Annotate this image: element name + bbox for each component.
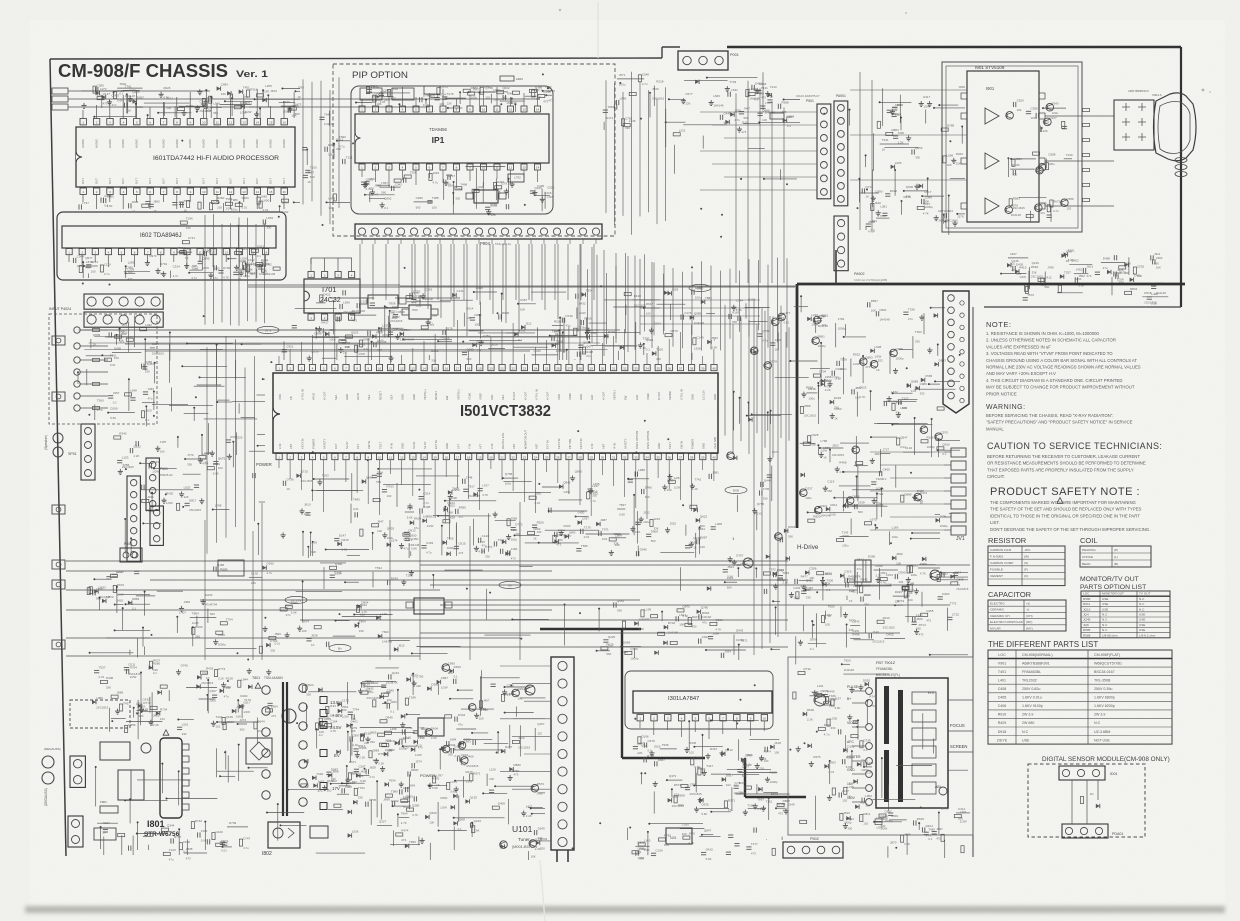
connector P502 — [783, 842, 843, 858]
connector PA902 — [834, 216, 848, 271]
wire I601 top pin — [270, 106, 272, 119]
component cluster below I301 — [785, 808, 787, 811]
wire IP1 pin bottom — [375, 170, 377, 182]
tuner connector U101 strip — [551, 657, 574, 850]
headphone jack symbol — [53, 433, 63, 443]
scan speck top — [559, 9, 561, 11]
tuner legs — [556, 850, 558, 862]
wire bus into thick line — [248, 286, 795, 288]
wire IP1 pin bottom — [442, 170, 444, 183]
wire long rail 1 — [66, 560, 788, 562]
wire horizontal bundle mid-left — [78, 329, 599, 331]
wire I601 bottom pin — [203, 195, 205, 210]
degauss coil P801 — [70, 756, 85, 787]
wire vertical bundle left of PIP — [302, 79, 304, 204]
fold crease light line — [597, 2, 599, 58]
warn triangle T801 — [255, 683, 261, 688]
RCA jack column — [74, 327, 80, 333]
connector JV1 multi-pin — [943, 291, 969, 413]
connector P4024 input row A — [84, 294, 163, 309]
wire horizontal feeders to I501 — [640, 299, 760, 301]
wire long rail 9 — [66, 637, 520, 639]
wire IP1 pin top — [456, 99, 458, 106]
error amp I803 — [310, 826, 328, 838]
wire I601 bottom pin — [283, 195, 285, 210]
transistor Q403 — [930, 570, 940, 580]
regulator I703 — [409, 305, 431, 319]
wire IP1 pin top — [429, 93, 431, 106]
flyback transformer T901 box — [876, 678, 948, 808]
output transistor cluster R — [1006, 112, 1014, 120]
wire audio bus 1 — [68, 98, 540, 100]
component cluster power below — [103, 829, 108, 831]
component cluster power primary — [150, 720, 152, 723]
IC I401 box — [666, 828, 692, 844]
vertical feeders mid — [204, 520, 206, 660]
wire cluster in AV box — [125, 393, 132, 396]
IC IP1 TDA9456 — [355, 114, 549, 163]
output transistor cluster B — [1005, 206, 1013, 214]
thick ground bus vertical — [796, 284, 799, 528]
opto coupler I802 — [268, 822, 300, 848]
wire long rail 4 — [66, 589, 440, 591]
wire lattice top audio — [259, 109, 261, 119]
I301 pin row — [637, 715, 643, 721]
wire vertical bundle P904 down — [359, 244, 361, 300]
wire I602 pin — [81, 255, 83, 267]
wire I601 top pin — [243, 94, 245, 119]
wire lattice below P001 — [669, 98, 685, 100]
wire cluster right of I501 — [808, 519, 815, 522]
component cluster above I501 — [474, 291, 497, 293]
wire IP1 pin bottom — [469, 170, 471, 181]
wire vertical bundle right of I501 descent — [724, 305, 726, 436]
posistor — [141, 743, 151, 753]
DIGITAL SENSOR MODULE dashed box — [1028, 764, 1145, 837]
I601 top pin row — [80, 119, 86, 125]
component cluster below I501 right — [667, 527, 669, 530]
wire cluster H-drive — [803, 585, 805, 588]
component cluster inside I602 block — [261, 265, 264, 272]
wire lattice far-left mid — [115, 629, 150, 631]
wire I602 pin — [107, 255, 109, 267]
component cluster right of T801 — [386, 704, 388, 709]
wire IP1 pin top — [483, 91, 485, 106]
FBT pins left — [866, 688, 873, 695]
I701 bottom pins — [308, 314, 314, 320]
wire cluster below P001 — [673, 133, 680, 136]
wire lattice PIP inner — [366, 92, 410, 94]
wire I601 top pin — [203, 109, 205, 119]
schematic border top-right thick — [661, 47, 663, 58]
wire IP1 pin top — [361, 99, 363, 106]
wire I601 bottom pin — [122, 195, 124, 210]
wire IP1 pin bottom — [429, 170, 431, 178]
wires I501 top pins up — [278, 356, 280, 364]
wire I602 pin — [225, 255, 227, 262]
I301 block outline — [625, 671, 773, 729]
wire cluster left-mid band — [372, 572, 374, 588]
speaker connector SP01 — [81, 424, 95, 480]
wire I601 bottom pin — [243, 195, 245, 203]
wire IP1 pin top — [469, 95, 471, 106]
wire lattice power extra — [238, 745, 240, 781]
PIP OPTION dashed box — [333, 64, 615, 236]
wire I601 top pin — [95, 105, 97, 119]
secondary rectifier cluster — [318, 688, 322, 692]
wire IP1 pin top — [510, 97, 512, 106]
wire I601 top pin — [216, 104, 218, 119]
I501 top pin row — [276, 365, 282, 371]
wire I601 bottom pin — [162, 195, 164, 203]
wire I602 pin — [134, 255, 136, 267]
bridge diode D801 — [246, 738, 272, 764]
wire I602 pin — [212, 255, 214, 267]
wire I602 pin — [265, 255, 267, 267]
FBT winding bar 3 — [898, 690, 903, 802]
CRT socket board — [1114, 100, 1154, 150]
IP1 bottom pin row — [359, 164, 365, 170]
wire vertical bundle left of P501 — [735, 93, 737, 283]
IC I301 LA7847 — [633, 691, 772, 713]
wire long rail 2 — [66, 570, 552, 572]
damper diode cluster — [846, 625, 848, 648]
wires upper-mid connectors — [248, 284, 400, 286]
FBT winding bar 2 — [884, 750, 889, 802]
IP1 top pin row — [359, 106, 365, 112]
wire I601 bottom pin — [176, 195, 178, 210]
sensor small parts — [1080, 797, 1083, 804]
wire I602 pin — [160, 255, 162, 267]
wire lattice below I501 — [628, 478, 649, 480]
wire long rail 5 — [200, 599, 640, 601]
P803 connector — [120, 548, 142, 562]
wire IP1 pin top — [442, 89, 444, 106]
wire vertical bundle below PIP — [579, 244, 581, 330]
wire lattice left connectors — [140, 489, 193, 491]
output transistor cluster G — [1011, 158, 1036, 160]
sensor connector PDA01 — [1062, 824, 1108, 838]
I901 pin squares — [961, 93, 967, 99]
schematic border top-left — [50, 58, 662, 59]
FBT winding bar 1 — [884, 686, 889, 744]
connector P605 — [150, 506, 163, 545]
IC I901 STV5109 — [967, 71, 1039, 222]
I602 pin row — [66, 249, 72, 255]
wire cluster left mid — [194, 484, 199, 486]
wire I602 pin — [199, 255, 201, 262]
wire long rail 7 — [300, 619, 788, 621]
schematic border left (slight scan skew) — [50, 59, 66, 856]
long verticals right of I501 — [753, 300, 755, 655]
wire I601 top pin — [256, 89, 258, 119]
wires tuner pins — [500, 665, 551, 667]
wire long rail 8 thick — [540, 628, 641, 630]
wire IP1 pin top — [415, 97, 417, 106]
wire IP1 pin bottom — [402, 170, 404, 180]
connector P806 bottom-left corner — [68, 816, 83, 847]
wire lattice top right amp — [957, 213, 965, 215]
audio input connector J601 — [52, 96, 68, 102]
transistor Q402 H-drive — [743, 558, 753, 568]
wire I601 bottom pin — [95, 195, 97, 210]
wire I602 pin — [238, 255, 240, 267]
sensor wires — [1071, 780, 1073, 824]
component cluster above I701 — [180, 251, 187, 254]
CAPACITOR table — [988, 600, 1066, 631]
wire lattice mid band — [196, 616, 198, 627]
wire IP1 pin bottom — [388, 170, 390, 187]
connector P001 on top border — [678, 51, 728, 70]
IC I602 TDA8946J body — [62, 226, 276, 248]
PIP inner rounded outline — [351, 86, 553, 214]
I701 top pins — [308, 272, 314, 278]
wire vertical bundle top center — [605, 80, 607, 213]
wire I601 bottom pin — [149, 195, 151, 210]
wire IP1 pin bottom — [483, 170, 485, 186]
AFT transistor — [525, 685, 535, 695]
wires inside top-right block — [850, 89, 967, 91]
wire lattice power supply — [147, 845, 149, 850]
component cluster tuner left — [461, 757, 469, 765]
component cluster left of PIP — [342, 159, 344, 164]
FBT ladder — [912, 692, 936, 704]
wire long rail 10 — [420, 646, 788, 648]
MONITOR/TV OUT table — [1081, 591, 1170, 638]
crystal X701 box — [508, 174, 524, 182]
wire I601 top pin — [176, 97, 178, 119]
wire I602 pin — [94, 255, 96, 262]
wire I601 top pin — [122, 95, 124, 119]
thick bus into vertical block — [621, 628, 623, 758]
mid horizontal bus — [400, 285, 797, 287]
component cluster between I601 and I602 — [222, 203, 224, 212]
wire I602 pin — [186, 255, 188, 267]
wire I601 top pin — [149, 107, 151, 119]
wire I601 bottom pin — [109, 195, 111, 203]
COIL table — [1080, 546, 1151, 567]
schematic border right of CRT block — [1180, 47, 1182, 307]
sub IC I702 in PIP — [474, 190, 498, 203]
connector P501 — [817, 104, 831, 199]
wire I601 top pin — [189, 92, 191, 119]
wires JV1 to left — [870, 451, 944, 453]
IC I801 STR-W6756 body — [160, 738, 182, 818]
wire IP1 pin top — [523, 93, 525, 106]
safety warn triangle in text — [1057, 498, 1063, 504]
component cluster right of tuner — [658, 632, 665, 635]
wire I601 bottom pin — [136, 195, 138, 203]
H drive transformer T402 — [855, 560, 871, 582]
small boxes above IP1 — [360, 88, 382, 100]
schematic border right lower — [972, 307, 974, 857]
I704 box above I501 — [368, 295, 398, 308]
wire IP1 pin bottom — [361, 170, 363, 177]
main filter cap C808 — [282, 709, 296, 723]
AV input dashed box — [49, 314, 157, 424]
wire IP1 pin top — [402, 87, 404, 106]
H-out block outline — [788, 657, 973, 835]
DIFFERENT PARTS LIST table — [988, 650, 1172, 744]
label 0.5V arrow — [770, 113, 784, 119]
connector P601 — [146, 458, 159, 510]
connector P904 — [355, 224, 602, 239]
component cluster above IP1 — [435, 97, 440, 99]
junction dots sprinkle — [600, 285, 602, 287]
wire IP1 pin top — [375, 95, 377, 106]
op-amp B channel — [985, 198, 999, 214]
component cluster below FBT — [875, 821, 882, 824]
wire I601 top pin — [109, 100, 111, 119]
P805 box — [218, 560, 244, 576]
wire I602 pin — [173, 255, 175, 262]
secondary output squares — [320, 697, 327, 704]
wire audio bus 2 — [68, 106, 430, 108]
wire lattice I301 area — [749, 739, 779, 741]
wire long rail 3 — [150, 579, 788, 581]
wires I301 pins — [639, 721, 641, 728]
CRT funnel — [1154, 93, 1197, 161]
ABL node — [939, 787, 947, 795]
wire cluster top-right corner block bottom — [1058, 285, 1061, 292]
IC I804 regulator — [418, 718, 444, 736]
wire long rail 6 — [66, 609, 552, 611]
wire bus into I501 top — [85, 329, 620, 331]
wires I501 bottom pins down — [278, 460, 280, 468]
I601 bottom pin row — [80, 188, 86, 194]
wire I601 top pin — [283, 101, 285, 119]
wire IP1 pin bottom — [496, 170, 498, 179]
wire IP1 pin bottom — [456, 170, 458, 188]
transformer T801 core — [282, 682, 284, 816]
wire vertical bundle center-right — [577, 265, 579, 332]
component cluster below I501 left — [478, 487, 483, 489]
wire bus P904 to main IC — [361, 239, 363, 244]
sensor connector ID01 — [1059, 766, 1105, 780]
fuse F801 — [100, 806, 118, 813]
thick bus top-right corner step — [835, 250, 837, 284]
wire lattice above I501 — [384, 306, 386, 337]
wire lattice right middle extra — [820, 343, 822, 383]
IF IC I201 — [414, 598, 444, 614]
connector PA901 — [834, 101, 848, 206]
wire I701 top — [310, 258, 312, 264]
wire IP1 pin bottom — [537, 170, 539, 182]
wires amp to CRT — [1045, 115, 1114, 117]
resistor cluster above I601 — [217, 86, 221, 90]
wire I602 pin — [120, 255, 122, 262]
wire lattice right-middle — [800, 296, 802, 312]
IC I602 TDA8946J block outline — [57, 212, 286, 280]
bottom page-edge shadow — [25, 906, 1225, 913]
JV1 lower pin boxes — [951, 448, 966, 457]
wire IP1 pin top — [496, 87, 498, 106]
wire IP1 pin top — [388, 91, 390, 106]
wire rails mid extra — [420, 564, 970, 566]
wire I602 pin — [251, 255, 253, 262]
CRT gun ellipses — [1175, 157, 1187, 162]
wire I602 pin — [147, 255, 149, 262]
op-amp R channel — [985, 108, 999, 124]
wire audio bus 3 — [68, 90, 210, 92]
T801 primary winding — [262, 686, 270, 694]
wire vertical bundle continue down — [206, 347, 208, 554]
wire IP1 pin bottom — [415, 170, 417, 185]
wire I601 bottom pin — [216, 195, 218, 203]
wire I601 bottom pin — [256, 195, 258, 210]
wire I601 top pin — [136, 90, 138, 119]
line filter T802 — [118, 770, 144, 800]
wire I601 bottom pin — [270, 195, 272, 203]
wire I601 bottom pin — [229, 195, 231, 210]
IC I501 VCT3832 — [273, 373, 718, 453]
I501 bottom pin row — [276, 454, 282, 460]
component cluster below IP1 — [511, 182, 513, 185]
resistor ladder right of amp — [1083, 108, 1090, 111]
IC I601 TDA7442 HI-FI audio processor — [76, 127, 295, 187]
RESISTOR table — [988, 546, 1065, 586]
wire long rail 11 — [66, 655, 420, 657]
resistor cluster right of I601 top — [629, 92, 636, 95]
IC I701 24C32 — [304, 279, 360, 313]
capacitor C605 bead — [500, 76, 514, 81]
wire cluster between PA901 and amp — [892, 109, 894, 112]
wire I601 bottom pin — [189, 195, 191, 203]
wire IP1 pin top — [537, 89, 539, 106]
wire lattice left of I501 — [201, 435, 203, 455]
wire lattice bottom center extra — [509, 725, 511, 749]
wire IP1 pin bottom — [510, 170, 512, 184]
wire IP1 pin bottom — [523, 170, 525, 177]
connector P604 tall — [127, 476, 140, 561]
wire vertical bundle I602 to center — [204, 215, 206, 325]
thick ground bus horizontal PA902 — [797, 283, 1185, 286]
wires from P501/PA901 left — [700, 111, 817, 113]
H-out transistor Q901 — [814, 694, 826, 706]
AC inlet connector — [42, 756, 54, 768]
connector P4024 input row B — [84, 312, 163, 327]
left border small connectors — [52, 336, 65, 345]
wire lattice tuner area — [456, 728, 476, 730]
wire I601 top pin — [162, 102, 164, 119]
wire lattice H-out — [937, 579, 968, 581]
oval net labels — [257, 326, 279, 333]
component cluster FBT left — [851, 687, 853, 690]
op-amp G channel — [985, 153, 999, 169]
wire I601 top pin — [82, 110, 84, 119]
amp block outer box — [942, 62, 1082, 232]
wire I703 — [419, 295, 421, 305]
T801 secondary winding — [299, 684, 307, 692]
wire I601 bottom pin — [82, 195, 84, 203]
wire cluster bottom center — [702, 834, 713, 836]
wire I601 top pin — [229, 99, 231, 119]
relay RY801 box — [100, 742, 130, 760]
wire I602 pin — [68, 255, 70, 262]
